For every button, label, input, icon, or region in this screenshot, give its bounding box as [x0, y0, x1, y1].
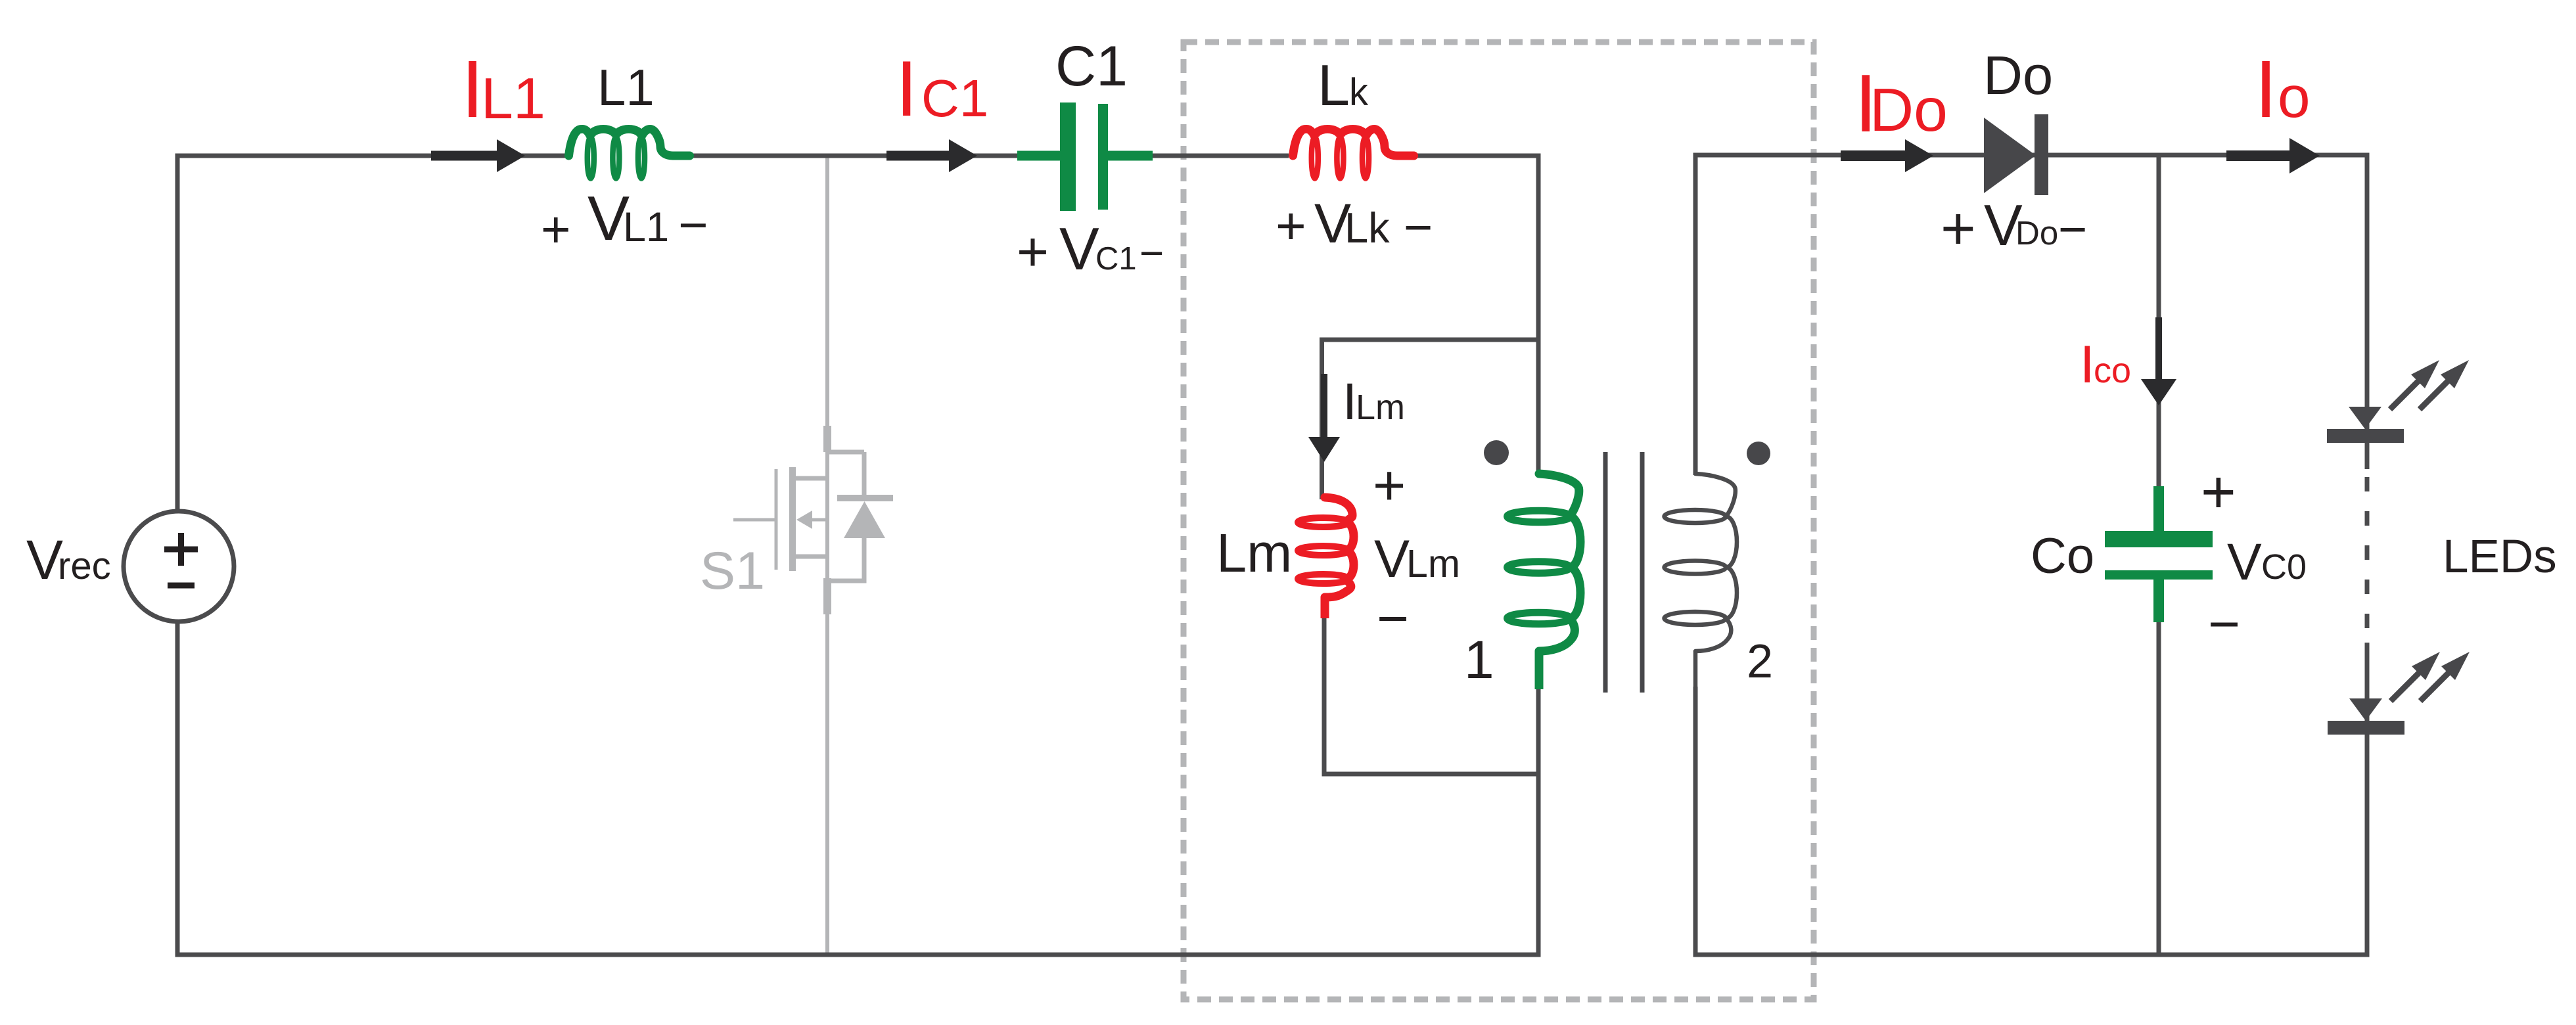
svg-text:−: −: [2208, 593, 2240, 655]
svg-text:−: −: [678, 196, 708, 254]
svg-text:Do: Do: [1983, 45, 2053, 106]
svg-text:+: +: [541, 200, 571, 258]
svg-text:C1: C1: [921, 69, 988, 127]
svg-text:−: −: [1377, 587, 1409, 649]
svg-text:co: co: [2094, 351, 2131, 390]
svg-text:−: −: [1139, 229, 1164, 277]
svg-text:Co: Co: [2031, 528, 2094, 584]
svg-text:V: V: [2227, 532, 2262, 591]
svg-text:+: +: [1941, 195, 1976, 262]
svg-text:+: +: [1017, 221, 1049, 283]
svg-text:C0: C0: [2261, 547, 2307, 587]
svg-text:S1: S1: [700, 541, 765, 601]
svg-text:V: V: [1059, 216, 1099, 283]
svg-text:LEDs: LEDs: [2443, 531, 2557, 583]
svg-text:Lm: Lm: [1216, 522, 1292, 583]
svg-text:−: −: [1404, 200, 1433, 256]
svg-text:+: +: [1373, 454, 1406, 517]
svg-text:o: o: [2278, 64, 2311, 129]
svg-text:−: −: [2058, 202, 2087, 258]
svg-text:L1: L1: [597, 58, 655, 116]
svg-text:rec: rec: [58, 545, 111, 587]
svg-text:+: +: [2201, 459, 2236, 526]
svg-text:L1: L1: [481, 66, 545, 131]
svg-text:1: 1: [1464, 630, 1494, 690]
svg-text:C1: C1: [1095, 241, 1137, 277]
svg-text:I: I: [1343, 372, 1357, 430]
svg-text:Do: Do: [1870, 76, 1948, 144]
svg-text:Lk: Lk: [1345, 204, 1390, 252]
svg-text:V: V: [1374, 530, 1410, 589]
svg-text:+: +: [1276, 196, 1306, 255]
svg-text:I: I: [896, 45, 917, 133]
svg-text:I: I: [2080, 335, 2095, 394]
svg-text:C1: C1: [1055, 35, 1128, 98]
svg-text:Lm: Lm: [1356, 388, 1405, 427]
svg-text:L1: L1: [623, 204, 669, 250]
svg-text:k: k: [1349, 71, 1369, 114]
svg-text:Lm: Lm: [1406, 542, 1460, 585]
svg-text:2: 2: [1747, 635, 1773, 688]
svg-text:I: I: [2255, 45, 2277, 135]
svg-text:Do: Do: [2015, 214, 2058, 252]
svg-text:L: L: [1318, 53, 1350, 118]
